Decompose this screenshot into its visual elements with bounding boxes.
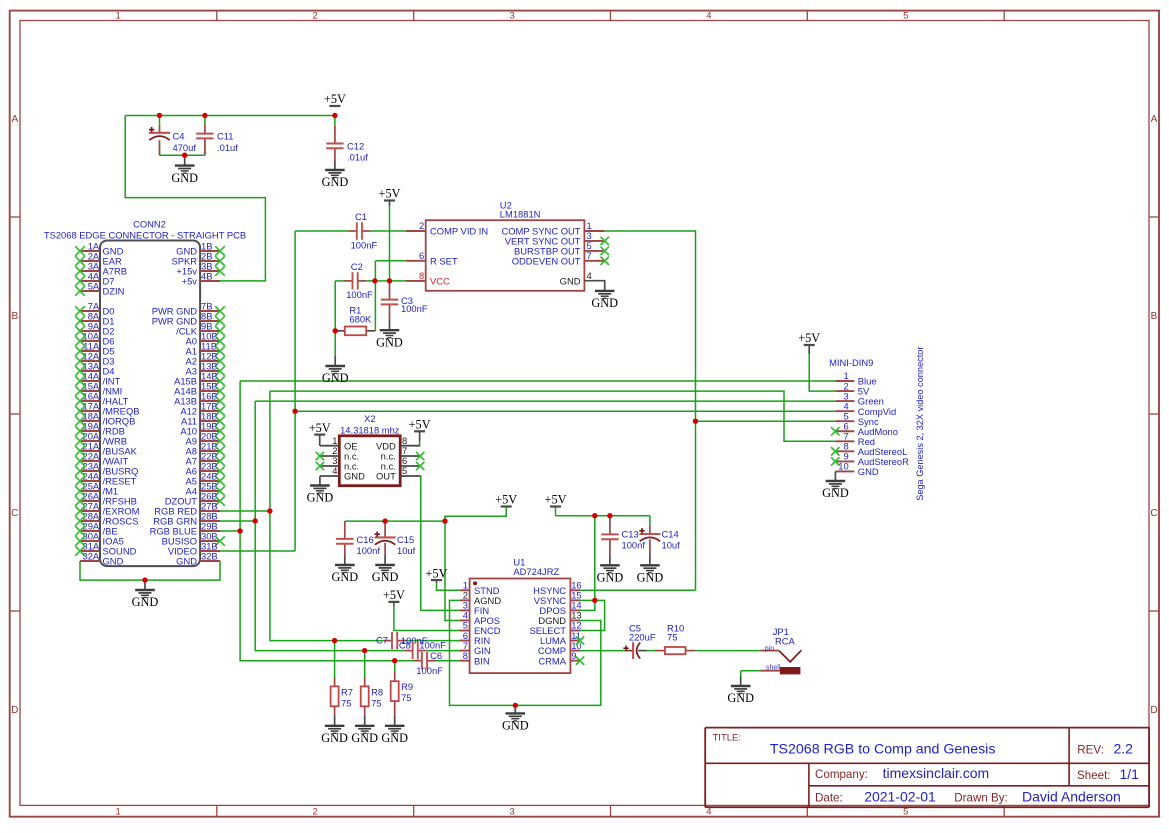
svg-text:A: A: [11, 114, 18, 125]
svg-text:32B: 32B: [201, 550, 218, 561]
svg-text:1: 1: [116, 11, 121, 22]
svg-text:100nF: 100nF: [416, 665, 443, 676]
svg-text:GND: GND: [822, 486, 849, 500]
svg-text:3: 3: [509, 11, 514, 22]
svg-text:4: 4: [706, 807, 711, 818]
svg-text:GND: GND: [381, 731, 408, 745]
svg-text:4B: 4B: [201, 270, 212, 281]
svg-text:+5v: +5v: [182, 275, 198, 286]
svg-text:VCC: VCC: [430, 276, 450, 287]
svg-text:GND: GND: [376, 335, 403, 349]
svg-text:Sheet:: Sheet:: [1077, 769, 1111, 782]
svg-text:GND: GND: [351, 731, 378, 745]
svg-text:C11: C11: [217, 131, 234, 142]
svg-text:Drawn By:: Drawn By:: [954, 791, 1007, 804]
svg-text:6: 6: [419, 250, 424, 261]
svg-text:2: 2: [313, 807, 318, 818]
svg-text:MINI-DIN9: MINI-DIN9: [829, 357, 873, 368]
svg-text:14.31818 mhz: 14.31818 mhz: [340, 425, 400, 436]
svg-text:C8: C8: [399, 639, 411, 650]
svg-text:C2: C2: [351, 261, 363, 272]
svg-text:GND: GND: [331, 570, 358, 584]
svg-text:GND: GND: [344, 471, 365, 482]
svg-text:D: D: [11, 705, 18, 716]
svg-text:GND: GND: [597, 571, 624, 585]
svg-text:1: 1: [116, 807, 121, 818]
svg-text:+5V: +5V: [426, 566, 448, 580]
svg-text:7: 7: [587, 250, 592, 261]
svg-text:.01uf: .01uf: [217, 142, 238, 153]
svg-text:GND: GND: [132, 595, 159, 609]
svg-text:GND: GND: [103, 555, 124, 566]
svg-text:5: 5: [903, 11, 908, 22]
svg-text:GND: GND: [171, 171, 198, 185]
svg-text:5A: 5A: [88, 280, 100, 291]
svg-text:TS2068 EDGE CONNECTOR - STRAIG: TS2068 EDGE CONNECTOR - STRAIGHT PCB: [44, 229, 246, 240]
svg-text:4: 4: [706, 11, 711, 22]
svg-text:CRMA: CRMA: [538, 655, 566, 666]
svg-text:C6: C6: [430, 650, 442, 661]
svg-text:Sega Genesis 2, 32X video conn: Sega Genesis 2, 32X video connector: [915, 347, 925, 501]
svg-text:Company:: Company:: [815, 768, 868, 781]
svg-text:100nF: 100nF: [401, 303, 428, 314]
svg-text:2: 2: [419, 220, 424, 231]
svg-text:75: 75: [341, 697, 351, 708]
svg-text:100nF: 100nF: [346, 289, 373, 300]
svg-text:75: 75: [667, 632, 677, 643]
svg-text:AD724JRZ: AD724JRZ: [513, 566, 559, 577]
svg-text:4: 4: [587, 270, 592, 281]
svg-text:100nF: 100nF: [419, 639, 446, 650]
svg-text:D: D: [1150, 705, 1157, 716]
svg-text:680K: 680K: [349, 314, 372, 325]
svg-text:+5V: +5V: [409, 418, 431, 432]
svg-text:2: 2: [313, 11, 318, 22]
svg-text:C14: C14: [662, 528, 679, 539]
svg-text:R8: R8: [371, 686, 383, 697]
svg-text:OUT: OUT: [376, 471, 396, 482]
svg-text:+5V: +5V: [798, 331, 820, 345]
svg-text:TS2068 RGB to Comp and Genesis: TS2068 RGB to Comp and Genesis: [770, 742, 996, 758]
svg-text:GND: GND: [502, 719, 529, 733]
svg-text:GND: GND: [307, 491, 334, 505]
svg-text:LM1881N: LM1881N: [500, 208, 541, 219]
svg-text:10uf: 10uf: [662, 539, 681, 550]
svg-text:C15: C15: [397, 534, 414, 545]
svg-text:GND: GND: [560, 275, 581, 286]
svg-text:4: 4: [332, 465, 337, 476]
svg-text:2.2: 2.2: [1114, 741, 1134, 757]
svg-text:3: 3: [509, 807, 514, 818]
svg-text:R SET: R SET: [430, 255, 458, 266]
svg-text:R7: R7: [341, 686, 353, 697]
svg-text:75: 75: [401, 692, 411, 703]
svg-text:8: 8: [463, 650, 468, 661]
svg-text:1/1: 1/1: [1120, 766, 1140, 782]
svg-text:9: 9: [571, 650, 576, 661]
svg-text:C13: C13: [622, 528, 639, 539]
svg-text:C16: C16: [357, 534, 374, 545]
svg-text:DZIN: DZIN: [103, 285, 125, 296]
svg-text:100nf: 100nf: [357, 545, 381, 556]
svg-text:B: B: [11, 311, 18, 322]
svg-text:RCA: RCA: [775, 636, 796, 647]
svg-text:C7: C7: [376, 635, 388, 646]
svg-text:GND: GND: [637, 571, 664, 585]
svg-text:CONN2: CONN2: [133, 218, 166, 229]
svg-text:8: 8: [419, 270, 424, 281]
svg-text:pin: pin: [765, 646, 774, 653]
svg-text:5: 5: [903, 807, 908, 818]
svg-text:10uf: 10uf: [397, 545, 416, 556]
svg-text:+5V: +5V: [379, 187, 401, 201]
svg-text:GND: GND: [858, 466, 879, 477]
svg-text:.01uf: .01uf: [347, 152, 368, 163]
svg-text:+5V: +5V: [495, 493, 517, 507]
svg-text:timexsinclair.com: timexsinclair.com: [883, 765, 990, 781]
svg-text:B: B: [1151, 311, 1158, 322]
svg-text:220uF: 220uF: [629, 632, 656, 643]
svg-text:75: 75: [371, 697, 381, 708]
svg-text:David Anderson: David Anderson: [1022, 788, 1121, 804]
svg-text:GND: GND: [591, 296, 618, 310]
svg-text:100nF: 100nF: [351, 240, 378, 251]
svg-text:GND: GND: [322, 371, 349, 385]
svg-text:5: 5: [402, 465, 407, 476]
svg-text:GND: GND: [176, 555, 197, 566]
svg-text:GND: GND: [321, 731, 348, 745]
svg-text:+5V: +5V: [324, 92, 346, 106]
svg-text:32A: 32A: [83, 550, 100, 561]
svg-text:C: C: [11, 508, 18, 519]
svg-text:GND: GND: [322, 175, 349, 189]
svg-text:+5V: +5V: [383, 588, 405, 602]
svg-text:C1: C1: [355, 211, 367, 222]
svg-text:REV:: REV:: [1077, 744, 1104, 757]
svg-text:A: A: [1151, 114, 1158, 125]
svg-text:BIN: BIN: [474, 655, 490, 666]
svg-text:100nf: 100nf: [622, 539, 646, 550]
svg-text:GND: GND: [372, 570, 399, 584]
svg-text:Date:: Date:: [815, 791, 843, 804]
svg-text:C4: C4: [173, 131, 185, 142]
svg-text:+5V: +5V: [309, 421, 331, 435]
svg-text:COMP VID IN: COMP VID IN: [430, 226, 488, 237]
svg-text:C: C: [1150, 508, 1157, 519]
svg-text:X2: X2: [364, 413, 375, 424]
svg-text:ODDEVEN OUT: ODDEVEN OUT: [512, 255, 581, 266]
svg-text:2021-02-01: 2021-02-01: [864, 788, 936, 804]
svg-text:TITLE:: TITLE:: [713, 733, 742, 744]
svg-text:R9: R9: [401, 681, 413, 692]
svg-text:shell: shell: [766, 664, 781, 671]
svg-text:C12: C12: [347, 140, 364, 151]
svg-text:+5V: +5V: [545, 493, 567, 507]
svg-text:470uf: 470uf: [173, 142, 197, 153]
svg-text:10: 10: [838, 461, 848, 472]
svg-text:GND: GND: [727, 691, 754, 705]
